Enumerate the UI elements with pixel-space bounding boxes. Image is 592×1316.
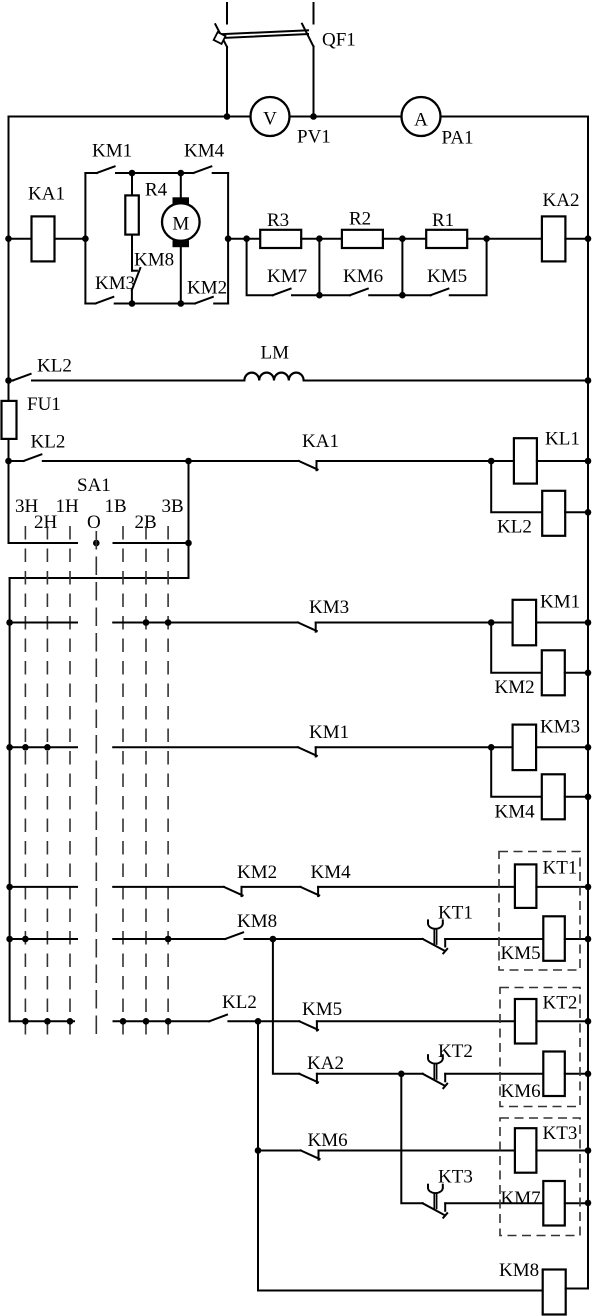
node bypass row R3-R2 [316,292,323,299]
svg-text:KM3: KM3 [309,597,349,618]
contact KL2 (control row) [9,454,299,461]
wire SA1 wiper row left segment [9,542,78,544]
node SA1 3H tap bottom row [22,1018,29,1025]
contact KL2 (bottom row) [209,1015,299,1022]
motor brush top [173,197,190,205]
relay coil KA1 [32,216,55,261]
wire bypass drop left [247,239,273,296]
node motor bridge left [82,235,89,242]
node SA1 3B tap KM8-row [165,936,172,943]
contact KM4 (power, top rail) [181,166,228,173]
svg-text:1B: 1B [105,496,127,517]
contact KM2 (power, bottom rail) [181,297,228,304]
motor branch wire bottom [180,247,182,304]
circuit breaker QF1 [214,3,314,47]
motor brush bottom [173,240,190,247]
contact KA1 (control row) [299,461,514,470]
node motor branch bottom [178,300,185,307]
wire KM7 coil to right rail [565,1202,588,1204]
node KA2-row branch [270,936,277,943]
wire KT2 coil to right rail [536,1020,588,1022]
node KT1-row left rail [6,884,13,891]
node KM8 branch bottom [129,300,136,307]
svg-text:KA2: KA2 [307,1053,344,1074]
wire KM1-row left segment [10,622,77,624]
contact KM8 (power, vertical) [132,268,140,304]
svg-text:M: M [172,214,189,235]
wire bus right of ammeter [440,116,588,118]
node bypass branch left [243,235,250,242]
fuse FU1 [2,401,17,439]
node armature row left rail [5,235,12,242]
time contact KT3 (delayed) [423,1185,544,1218]
node KM1-row left rail [6,619,13,626]
node SA1 2H tap bottom row [44,1018,51,1025]
wire QF1 left pole to bus [226,47,228,117]
contact KA2 [299,1074,422,1083]
contactor coil KM5 [543,916,565,961]
wire QF1 right pole to bus [313,47,315,117]
contact KM2 (in KT1 row) [224,887,301,896]
node control row left rail [5,458,12,465]
wire bus between meters [290,116,403,118]
node KL2 coil right rail [585,509,592,516]
wire KM4 coil to right rail [565,796,588,798]
svg-text:KM1: KM1 [92,141,132,162]
wire left rail (top) [8,117,10,544]
SA1 column 2B (dashed) [145,526,147,1040]
wire bypass drop right-mid [402,239,430,296]
svg-text:1H: 1H [56,496,80,517]
node motor branch top [178,170,185,177]
svg-text:KM6: KM6 [308,1130,348,1151]
contactor coil KM4 [542,774,565,819]
node SA1 3B tap KM1-row [165,619,172,626]
wire KL2 coil to right rail [565,511,588,513]
dashed box KT3 unit [500,1118,580,1236]
wire left rail (lower) [9,578,11,1021]
node KM1 coil right rail [585,619,592,626]
node LM row right rail [585,377,592,384]
timer coil KT2 [515,999,537,1044]
svg-text:KM4: KM4 [184,141,225,162]
time contact KT1 (delayed) [423,920,544,953]
resistor R1 [426,230,467,248]
svg-text:KM4: KM4 [311,862,352,883]
contact KL2 (LM row) [9,374,245,381]
node KM3-row left rail [6,744,13,751]
svg-text:KM4: KM4 [495,802,536,823]
SA1 column 2H (dashed) [46,526,48,1040]
wire KM8-row left segment [10,938,77,940]
dashed box KT2 unit [500,988,580,1107]
svg-text:KT3: KT3 [543,1123,578,1144]
relay coil KA2 [542,216,566,261]
wire R3 to R2 [301,238,342,240]
contactor coil KM2 [542,650,565,695]
wire R4 branch upper [131,173,133,195]
wire KM6 coil to right rail [565,1073,588,1075]
svg-text:QF1: QF1 [322,30,356,51]
svg-text:KM8: KM8 [237,911,277,932]
svg-text:KM5: KM5 [302,999,342,1020]
contactor coil KM6 [543,1052,565,1097]
svg-text:PA1: PA1 [442,128,474,149]
contactor coil KM7 [543,1181,565,1226]
wire KL2-row left segment [10,1020,74,1022]
node R3-R2 junction [316,235,323,242]
contact KM7 (bypass R3) [273,289,320,296]
node: QF1 left pole junction [224,113,231,120]
wire KM8 coil to right rail [566,1203,588,1289]
svg-text:KT3: KT3 [438,1167,473,1188]
node R4 branch top [129,170,136,177]
wire bypass drop mid [319,239,350,296]
SA1 column 1B (dashed) [122,526,124,1040]
svg-text:KM7: KM7 [267,266,307,287]
svg-text:KM5: KM5 [501,943,541,964]
wire left rail to KA1 [9,238,32,240]
wire KL2-row right segment [114,1020,210,1022]
wire KM2 coil to right rail [565,672,588,674]
wire KM6-row feeder vertical [257,1021,259,1290]
node KM4 coil right rail [585,794,592,801]
contactor coil KM1 [513,600,537,646]
node KM2 coil branch [488,619,495,626]
wire KM8-row right segment [113,938,225,940]
node R2-R1 junction [399,235,406,242]
node KM6 coil right rail [585,1071,592,1078]
node KT3-row branch [398,1071,405,1078]
svg-text:KM7: KM7 [501,1188,541,1209]
wire KM3 coil to right rail [536,746,588,748]
svg-text:R3: R3 [267,210,289,231]
wire KA2-row feeder vertical [273,939,299,1074]
svg-text:PV1: PV1 [297,127,331,148]
dashed box KT1 unit [499,852,580,971]
svg-text:KT1: KT1 [438,903,473,924]
node KT1 coil right rail [585,884,592,891]
wire KM7-row feeder vertical [401,1074,422,1204]
wire KA2 to right rail [565,238,588,240]
node bypass branch right [483,235,490,242]
wire KT1-row right segment [113,886,224,888]
svg-text:KL2: KL2 [222,992,257,1013]
svg-text:A: A [414,110,428,131]
node KM6-row branch [255,1018,262,1025]
svg-text:3B: 3B [162,496,184,517]
SA1 column 3H (dashed) [24,526,26,1040]
svg-text:KT2: KT2 [543,993,578,1014]
node KM4 coil branch [488,744,495,751]
svg-text:KT1: KT1 [543,858,578,879]
wire KM5 coil to right rail [565,938,588,940]
node KM8-row left rail [6,936,13,943]
svg-text:2H: 2H [34,512,58,533]
node SA1 1B tap bottom row [120,1018,127,1025]
wire KM3-row left segment [10,746,77,748]
wire KT3 coil to right rail [536,1150,588,1152]
svg-text:KM6: KM6 [343,266,383,287]
node SA1 3H tap KM8-row [22,936,29,943]
contact KM1 (interlock in KM3 row) [298,747,512,756]
SA1 column 1H (dashed) [69,526,71,1040]
svg-text:V: V [263,109,277,130]
node KM2 coil right rail [585,670,592,677]
node SA1 wiper right [185,540,192,547]
node KM7 coil right rail [585,1200,592,1207]
node SA1 2B tap KM1-row [143,619,150,626]
timer coil KT3 [515,1128,537,1173]
node: QF1 right pole junction [310,113,317,120]
contactor coil KM8 [543,1270,566,1315]
wire motor bridge left vertical [84,173,86,304]
node SA1 O-column wiper [93,540,100,547]
node KT3 coil right rail [585,1147,592,1154]
node KL1 branch [488,458,495,465]
svg-text:KL2: KL2 [497,517,532,538]
resistor R4 [125,195,139,234]
wire bottom rail mid [132,303,181,305]
contact KM3 (interlock in KM1 row) [298,623,512,632]
wire R1 to KA2 [467,238,542,240]
contact KM5 (in KT2 row) [299,1021,515,1030]
contact KM8 (in KM5 row) [225,932,422,939]
SA1 column 3B (dashed) [167,526,169,1040]
wire top rail mid [132,172,181,174]
svg-text:KM2: KM2 [237,862,277,883]
svg-text:KM6: KM6 [501,1081,541,1102]
svg-text:KM1: KM1 [309,722,349,743]
wire SA1 wiper row right segment [114,542,189,544]
contact KM4 (in KT1 row) [301,887,515,896]
wire KM4 coil branch [491,747,542,797]
wire KT1-row left segment [10,886,77,888]
wire KM1 coil to right rail [536,622,588,624]
wire KL2 coil branch [491,461,542,512]
svg-text:KM3: KM3 [540,717,580,738]
node KM5 coil right rail [585,936,592,943]
wire SA1 feeder vertical [188,461,190,578]
svg-text:KA2: KA2 [543,190,580,211]
node SA1 2B tap bottom row [143,1018,150,1025]
svg-text:KM3: KM3 [95,273,135,294]
svg-text:R2: R2 [349,209,371,230]
wire KM8 coil row [258,1290,543,1292]
node LM row left rail [5,377,12,384]
node right rail armature row [585,235,592,242]
node SA1 1H tap bottom row [67,1018,74,1025]
wire KT1 coil to right rail [536,886,588,888]
node SA1 3H tap KM3-row [22,744,29,751]
svg-text:KL2: KL2 [37,356,72,377]
node KM6-row start [255,1147,262,1154]
wire KA1 to motor bridge [55,238,86,240]
svg-text:KL1: KL1 [545,429,580,450]
svg-text:KM5: KM5 [427,266,467,287]
resistor R2 [342,230,383,248]
wire KM1-row right segment [113,622,298,624]
wire KM6-row [258,1150,301,1152]
node motor bridge right [225,235,232,242]
svg-text:R1: R1 [432,210,454,231]
node KL1 right rail [585,458,592,465]
motor branch wire top [180,173,182,198]
bus: top horizontal line [9,116,251,118]
wire R4 to KM8 contact [131,235,133,271]
inductor LM (smoothing reactor) [244,373,303,381]
svg-text:SA1: SA1 [77,475,111,496]
svg-text:KL2: KL2 [31,432,66,453]
timer coil KT1 [515,864,537,908]
svg-text:KT2: KT2 [438,1041,473,1062]
ammeter PA1 [402,97,441,136]
wire right rail [587,117,589,1203]
contactor coil KM3 [513,725,537,771]
svg-text:KA1: KA1 [28,184,65,205]
svg-text:KM8: KM8 [499,1260,539,1281]
node SA1 3B tap bottom row [165,1018,172,1025]
svg-text:KM2: KM2 [495,677,535,698]
svg-text:KA1: KA1 [302,431,339,452]
node SA1 2H tap KM3-row [44,744,51,751]
contact KM6 (in KT3 row) [301,1151,515,1160]
svg-text:LM: LM [261,343,290,364]
node bypass row R2-R1 [399,292,406,299]
voltmeter PV1 [251,97,290,136]
wire SA1 return line [10,577,189,579]
node SA1 feeder junction [185,458,192,465]
wire motor bridge right vertical [227,173,229,304]
svg-text:O: O [87,512,101,533]
svg-text:FU1: FU1 [27,394,61,415]
svg-text:KM2: KM2 [187,278,227,299]
contact KM3 (power, bottom rail) [85,297,132,304]
wire LM to right rail [304,380,588,382]
contact KM1 (power, top rail) [85,166,132,173]
wire KM2 coil branch [491,623,542,673]
wire R2 to R1 [383,238,426,240]
relay coil KL1 [514,438,537,483]
svg-text:KM8: KM8 [134,250,174,271]
node KM3 coil right rail [585,744,592,751]
wire bridge to R ladder [228,238,260,240]
svg-text:KM1: KM1 [540,592,580,613]
time contact KT2 (delayed) [423,1055,544,1088]
wire KM3-row right segment [113,746,298,748]
resistor R3 [260,230,301,248]
relay coil KL2 [542,491,565,536]
svg-text:R4: R4 [145,180,168,201]
motor M armature circle [162,203,200,241]
SA1 column O (dashed) [95,531,97,1040]
contact KM6 (bypass R2) [350,289,402,296]
contact KM5 (bypass R1) [431,239,487,296]
wire KL1 to right rail [537,460,588,462]
node KT2 coil right rail [585,1018,592,1025]
